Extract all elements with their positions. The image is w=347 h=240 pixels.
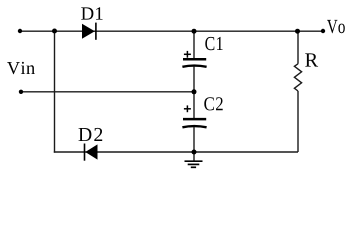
resistor R top lead bbox=[297, 31, 299, 64]
label Vo bbox=[327, 20, 345, 33]
capacitor C2 bottom plate bbox=[182, 126, 206, 127]
ground bbox=[185, 161, 203, 167]
node Vin bottom terminal bbox=[19, 90, 23, 94]
capacitor C1 bottom plate bbox=[182, 66, 206, 67]
node junction C1 top bbox=[192, 29, 197, 34]
capacitor C1 top plate bbox=[183, 58, 206, 61]
label C1 bbox=[205, 37, 222, 50]
node junction top-left bbox=[52, 29, 57, 34]
node junction C2 bottom ground bbox=[192, 150, 197, 155]
wire top rail bbox=[20, 30, 323, 32]
capacitor C2 top plate bbox=[183, 118, 206, 121]
wire C2 to ground bbox=[193, 127, 195, 161]
resistor R zigzag bbox=[294, 64, 301, 91]
label R bbox=[305, 53, 318, 66]
resistor R bottom lead bbox=[297, 91, 299, 152]
node Vin top terminal bbox=[18, 29, 22, 33]
capacitor C1 plus sign bbox=[184, 51, 191, 58]
node junction R top bbox=[295, 29, 300, 34]
wire between C1 and C2 bbox=[193, 67, 195, 120]
capacitor C2 plus sign bbox=[184, 105, 191, 112]
diode D2 bbox=[85, 144, 98, 161]
label C2 bbox=[204, 97, 222, 110]
node junction C1-C2 midpoint bbox=[192, 89, 197, 94]
wire C1 top lead bbox=[193, 31, 195, 59]
wire Vin lower lead bbox=[21, 91, 194, 93]
wire left vertical bbox=[54, 31, 56, 153]
node Vo terminal bbox=[321, 29, 325, 33]
label Vin bbox=[7, 62, 35, 75]
label D1 bbox=[81, 7, 102, 19]
wire bottom rail bbox=[54, 151, 298, 153]
diode D1 bbox=[82, 23, 96, 40]
label D2 bbox=[79, 128, 103, 141]
